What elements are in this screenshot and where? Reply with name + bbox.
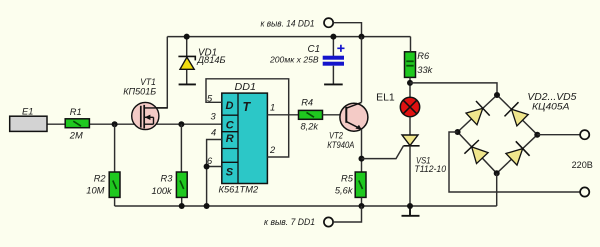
svg-text:S: S [226, 166, 234, 178]
ground chassis bar [402, 206, 420, 216]
node VS1 rail junction [407, 203, 413, 209]
node supply terminal 7 [324, 217, 333, 226]
svg-text:к выв. 14 DD1: к выв. 14 DD1 [261, 18, 315, 29]
diode VD5 bottom-right [506, 141, 530, 165]
capacitor C1 [323, 37, 345, 84]
svg-text:E1: E1 [22, 106, 33, 116]
wire top rail [167, 36, 410, 38]
diode VD2 top-left [466, 101, 490, 125]
svg-text:КЦ405А: КЦ405А [532, 101, 569, 111]
node collector rail junction [359, 34, 365, 40]
wire R5 bottom riser [361, 197, 363, 206]
ground VD1 common bar [179, 83, 196, 85]
svg-text:6: 6 [207, 156, 213, 166]
wire R3 top riser [180, 124, 182, 172]
svg-text:R6: R6 [417, 51, 430, 61]
node VT2 emitter junction [359, 156, 365, 162]
svg-text:R1: R1 [70, 107, 82, 117]
svg-text:К561ТМ2: К561ТМ2 [219, 185, 260, 195]
svg-text:D: D [226, 100, 234, 112]
wire rail corner to R6 [410, 37, 412, 52]
wire DD1 pin1 to R4 [267, 114, 298, 116]
svg-text:5,6k: 5,6k [335, 186, 354, 196]
wire DD1 pin4 to pin6 to ground rail [207, 140, 222, 207]
wire VS1 cathode drop [409, 146, 411, 206]
wire VT2 emitter drop [361, 129, 363, 172]
wire bridge left to lower terminal [449, 132, 580, 192]
svg-text:к выв. 7 DD1: к выв. 7 DD1 [264, 216, 315, 227]
svg-text:Д814Б: Д814Б [197, 55, 226, 65]
transistor VT1 [132, 102, 168, 129]
resistor R2 [109, 172, 120, 197]
svg-text:R3: R3 [161, 173, 174, 183]
node R3 bottom junction [179, 203, 185, 209]
lamp EL1 [400, 97, 419, 116]
svg-text:100k: 100k [152, 186, 174, 196]
diode VD4 bottom-left [464, 140, 488, 164]
svg-text:EL1: EL1 [376, 92, 395, 104]
node supply terminal 14 [324, 18, 333, 27]
wire R6 junction to bridge top [410, 83, 497, 95]
node DD1 ground rail junction [204, 203, 210, 209]
resistor R5 [355, 172, 366, 197]
thyristor VS1 [362, 135, 420, 159]
svg-text:3: 3 [211, 112, 217, 122]
wire R2 bottom riser [114, 197, 116, 206]
svg-text:КТ940А: КТ940А [327, 140, 354, 150]
wire bridge right to upper terminal [537, 134, 580, 136]
diode VD3 top-right [505, 102, 529, 126]
node bridge bottom [494, 170, 500, 176]
svg-text:Т112-10: Т112-10 [414, 164, 446, 174]
node mains terminal lower [580, 187, 589, 196]
node R2 top junction [112, 121, 118, 127]
svg-text:8,2k: 8,2k [301, 121, 320, 131]
node R3 top junction [178, 121, 184, 127]
node R5 bottom junction [359, 203, 365, 209]
wire bottom rail [115, 205, 497, 207]
node VD1 top junction [184, 34, 190, 40]
node DD1 pin6 junction [204, 164, 210, 170]
wire terminal 7 to rail [333, 206, 361, 222]
wire gate line E1-R1 [47, 123, 65, 125]
ground C1 common bar [324, 83, 343, 85]
wire R4 to VT2 base [323, 114, 346, 116]
svg-text:C: C [226, 120, 235, 132]
node R6 bottom junction [407, 80, 413, 86]
svg-text:2M: 2M [69, 130, 83, 140]
zener diode VD1 [178, 37, 195, 84]
svg-text:5: 5 [207, 94, 213, 104]
node bridge right [534, 132, 540, 138]
svg-text:220В: 220В [572, 160, 593, 171]
svg-text:R: R [226, 133, 234, 145]
node bridge left [455, 129, 461, 135]
svg-text:2: 2 [269, 145, 276, 155]
resistor R6 [405, 52, 416, 78]
svg-text:R4: R4 [301, 98, 313, 108]
svg-text:R5: R5 [341, 174, 354, 184]
svg-text:1: 1 [270, 103, 275, 113]
wire bridge bottom to rail [496, 173, 498, 206]
wire R3 bottom riser [181, 197, 183, 206]
wire DD1 feedback loop pin2 to pin5 [206, 79, 289, 157]
wire VT2 collector riser [361, 37, 363, 103]
svg-text:R2: R2 [94, 173, 107, 183]
diode bridge VD2-VD5 [458, 95, 538, 173]
svg-text:33k: 33k [417, 65, 433, 75]
wire R2 top riser [114, 124, 116, 172]
wire gate line R1-VT1 [89, 123, 141, 125]
wire terminal 14 to rail [333, 23, 361, 37]
sensor E1 touch plate [10, 116, 47, 131]
node bridge top [494, 92, 500, 98]
IC DD1 K561TM2 flip-flop body [222, 93, 268, 183]
node C1 top junction [330, 34, 336, 40]
resistor R3 [176, 172, 187, 197]
svg-text:200мк x 25В: 200мк x 25В [269, 54, 319, 64]
node mains terminal upper [580, 130, 589, 139]
svg-text:DD1: DD1 [235, 82, 257, 93]
svg-text:КП501Б: КП501Б [123, 86, 156, 96]
wire VT1 drain riser [144, 37, 167, 108]
wire EL1 to VS1 [409, 117, 411, 136]
svg-text:4: 4 [211, 127, 216, 137]
wire VT1 source to DD1 pin 3 [144, 123, 222, 125]
svg-text:VT2: VT2 [329, 130, 343, 140]
resistor R1 [65, 119, 89, 128]
wire R6 bottom [409, 77, 411, 97]
resistor R4 [299, 110, 323, 119]
svg-text:10M: 10M [86, 186, 104, 196]
transistor VT2 [340, 102, 368, 131]
